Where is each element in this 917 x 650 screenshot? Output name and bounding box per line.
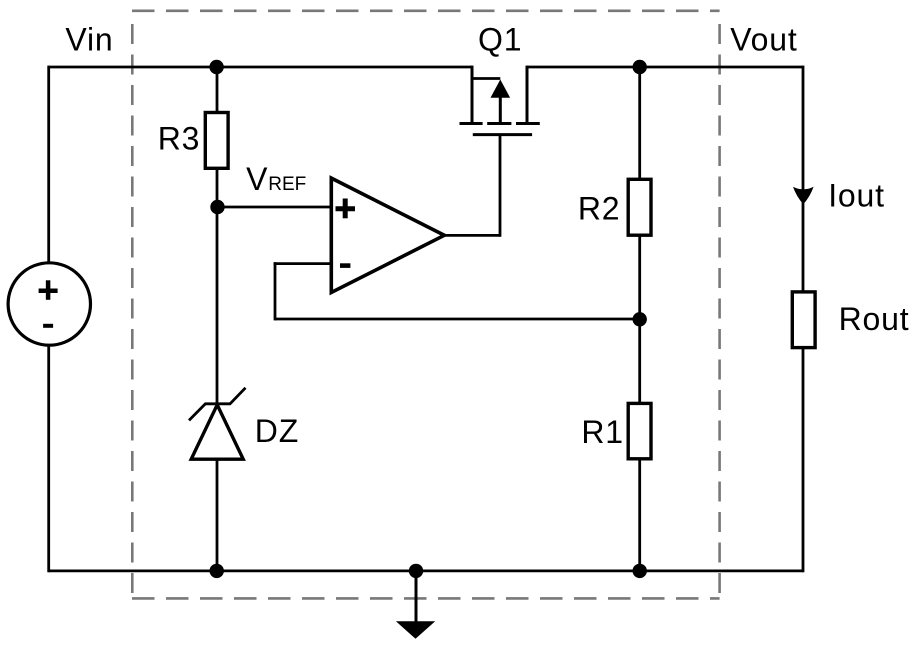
wire bottom ground rail: [49, 570, 803, 573]
node ground rail left junction dot: [210, 564, 224, 578]
wire left vertical top (Vin corner to source top): [47, 66, 50, 264]
regulator boundary dashed box right edge: [718, 24, 721, 598]
svg-text:Iout: Iout: [828, 178, 885, 214]
resistor R2: [628, 179, 651, 235]
regulator boundary dashed box left edge: [131, 24, 134, 598]
svg-text:R2: R2: [578, 190, 621, 226]
svg-text:R3: R3: [158, 121, 201, 157]
transistor Q1 channel bar right: [516, 122, 540, 125]
wire left vertical bottom (source bottom to ground rail): [47, 345, 50, 572]
transistor Q1 gate plate: [473, 133, 532, 136]
wire feedback vertical riser: [274, 262, 277, 320]
wire R3 top stub: [216, 67, 219, 112]
wire R1 bottom to ground rail: [638, 459, 641, 572]
wire VREF node down to zener DZ cathode: [216, 207, 219, 404]
wire op-amp output: [444, 234, 500, 237]
op-amp minus input sign: [340, 263, 350, 268]
wire VREF node to op-amp plus input: [217, 206, 333, 209]
resistor Rout: [792, 292, 815, 348]
resistor R1: [628, 403, 651, 458]
node ground rail center junction dot: [409, 564, 423, 578]
wire Q1 gate riser: [499, 135, 502, 237]
node Vin junction dot: [209, 60, 223, 74]
zener diode DZ triangle: [191, 405, 243, 459]
regulator boundary dashed box bottom edge: [132, 597, 720, 600]
transistor Q1 source leg: [471, 66, 474, 123]
transistor Q1 channel bar left: [460, 122, 483, 125]
wire Vin top horizontal (source to Q1 source leg): [49, 66, 472, 69]
ground symbol arrow: [396, 621, 435, 639]
op-amp plus input sign: [336, 206, 356, 211]
wire feedback horizontal (node to left riser): [275, 318, 641, 321]
voltage source plus sign: [39, 288, 58, 293]
svg-text:Rout: Rout: [839, 301, 910, 337]
svg-text:DZ: DZ: [255, 413, 299, 449]
Iout current arrow head: [793, 187, 814, 204]
node feedback junction dot: [633, 312, 647, 326]
node Vout junction dot: [633, 60, 647, 74]
wire Q1 drain leg to Vout right: [527, 66, 803, 69]
svg-text:Vout: Vout: [730, 21, 797, 57]
svg-text:Q1: Q1: [478, 22, 522, 58]
node ground rail right junction dot: [633, 564, 647, 578]
voltage source V1 circle: [8, 263, 90, 345]
ground symbol stem: [415, 570, 418, 623]
svg-text:R1: R1: [581, 414, 624, 450]
voltage source minus sign: [43, 324, 53, 328]
wire feedback node to R1 top: [638, 319, 641, 404]
wire R3 bottom to VREF node: [216, 169, 219, 208]
wire Vout node to R2 top: [638, 67, 641, 180]
svg-text:Vin: Vin: [65, 21, 113, 57]
node VREF junction dot: [210, 200, 224, 214]
regulator boundary dashed box top edge: [132, 10, 720, 13]
resistor R3: [205, 113, 228, 169]
transistor Q1 channel bar middle: [487, 122, 511, 125]
transistor Q1 bulk-source tie: [471, 77, 501, 80]
zener diode DZ cathode bar with bends: [189, 388, 246, 421]
wire feedback into op-amp minus input: [274, 262, 333, 265]
wire right vertical Vout to Rout: [802, 66, 805, 292]
transistor Q1 drain leg: [526, 66, 529, 123]
wire zener DZ anode to ground rail: [216, 458, 219, 572]
op-amp U1 triangle: [331, 178, 444, 292]
wire R2 bottom to feedback node: [638, 235, 641, 321]
wire Rout bottom to ground rail: [802, 348, 805, 572]
transistor Q1 bulk arrow: [499, 96, 502, 124]
